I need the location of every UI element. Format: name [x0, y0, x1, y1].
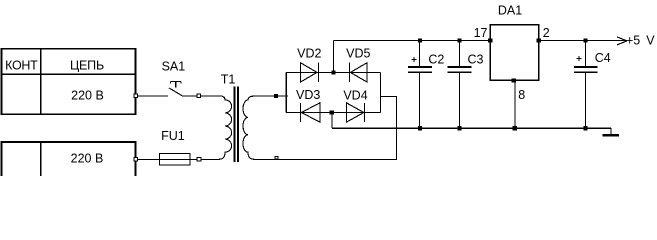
junction dot C4 bottom [584, 126, 588, 130]
svg-text:VD5: VD5 [346, 46, 370, 60]
DC plus riser wire [332, 41, 334, 73]
svg-text:220 В: 220 В [71, 152, 104, 166]
junction dot bridge bottom [330, 110, 334, 114]
svg-text:C3: C3 [468, 53, 484, 67]
junction dot pin 2 [537, 39, 541, 43]
plus mark C4 [576, 56, 581, 61]
junction dot C2 bottom [418, 126, 422, 130]
connector table XT2 (bottom, cut off) [2, 142, 136, 176]
svg-text:8: 8 [518, 88, 525, 102]
capacitor C4 [574, 41, 598, 129]
svg-text:ЦЕПЬ: ЦЕПЬ [70, 59, 104, 73]
fuse FU1 [160, 154, 191, 166]
AC2 branch wire to transformer [380, 97, 396, 160]
terminal square after SA1 [197, 94, 201, 98]
capacitor C2 [408, 41, 432, 129]
junction dot pin 8 bottom [513, 126, 517, 130]
wire SA1 to terminal [182, 95, 197, 97]
bridge bottom rail wire [286, 112, 380, 114]
bridge top rail wire [286, 71, 380, 73]
capacitor C3 [448, 41, 472, 129]
wire table XT2 to FU1 to terminal [138, 158, 197, 160]
node dot on secondary top wire [274, 94, 278, 98]
transformer T1 secondary winding [243, 96, 397, 159]
junction dot bridge top [331, 70, 335, 74]
svg-text:C4: C4 [595, 51, 611, 65]
diode VD2 [300, 63, 318, 82]
svg-text:C2: C2 [428, 53, 444, 67]
svg-text:DA1: DA1 [498, 4, 522, 18]
pin 8 wire [514, 80, 516, 128]
junction dot C4 top [584, 39, 588, 43]
DC minus drop wire [331, 113, 333, 129]
bridge left edge wire [285, 72, 287, 112]
DC plus rail wire [333, 40, 490, 42]
wire table to SA1 [138, 95, 168, 97]
junction dot C2 top [418, 39, 422, 43]
junction dot pin 8 [512, 78, 516, 82]
transformer T1 core [234, 87, 238, 163]
svg-text:220 В: 220 В [71, 88, 104, 102]
tiny terminal on secondary bottom wire [275, 156, 278, 159]
output arrow +5V [617, 37, 627, 45]
terminal square after FU1 [197, 158, 201, 162]
diode VD5 [349, 63, 367, 82]
regulator DA1 box [490, 25, 539, 81]
svg-text:КОНТ: КОНТ [5, 59, 38, 73]
diode VD3 [301, 103, 320, 122]
DC minus rail wire [332, 127, 611, 129]
output rail wire from pin 2 [539, 40, 627, 42]
terminal square at table XT2 [134, 158, 138, 162]
transformer T1 primary winding [201, 96, 232, 160]
connector table XT1 (КОНТ/ЦЕПЬ) [2, 49, 136, 115]
diode VD4 [346, 103, 364, 122]
bridge right edge wire [379, 72, 381, 112]
ground [602, 128, 619, 135]
plus mark C2 [411, 57, 416, 62]
svg-text:VD2: VD2 [297, 46, 321, 60]
terminal square at table XT1 [134, 94, 138, 98]
svg-text:+5 V: +5 V [626, 34, 655, 48]
junction dot C3 top [457, 39, 461, 43]
svg-text:2: 2 [543, 26, 550, 40]
svg-text:FU1: FU1 [161, 129, 185, 143]
junction dot C3 bottom [457, 126, 461, 130]
svg-text:17: 17 [474, 26, 488, 40]
svg-text:SA1: SA1 [162, 59, 186, 73]
svg-text:VD3: VD3 [296, 88, 320, 102]
switch SA1 [169, 81, 182, 95]
svg-text:T1: T1 [221, 72, 236, 86]
svg-text:VD4: VD4 [343, 89, 367, 103]
junction dot pin 17 [488, 39, 492, 43]
